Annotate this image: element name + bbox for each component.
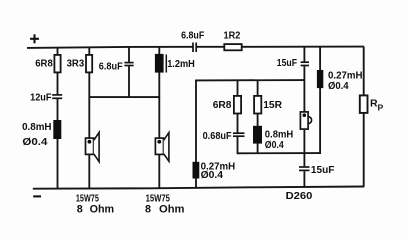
svg-text:1.2mH: 1.2mH (167, 59, 195, 70)
capacitor 15uF (top) (301, 62, 309, 65)
svg-text:6.8uF: 6.8uF (181, 31, 204, 42)
inductor 0.8mH (woofer branch) (53, 120, 61, 139)
resistor 15R (254, 96, 261, 114)
resistor 6R8 (tweeter section) (234, 96, 241, 114)
wire branch 15R/0.8mH (257, 80, 259, 153)
tweeter D260 (300, 112, 311, 129)
wire top rail left of 6.8uF cap (27, 47, 193, 48)
svg-text:3R3: 3R3 (67, 59, 85, 70)
svg-text:D260: D260 (286, 191, 313, 202)
resistor Rp (360, 95, 368, 113)
wire branch 6R8/12uF/0.8mH upper (57, 48, 59, 95)
label Rp (370, 98, 384, 113)
svg-text:8: 8 (77, 203, 83, 215)
label 8 Ohm speaker1 (77, 203, 114, 215)
svg-text:P: P (378, 102, 384, 112)
wire bottom rail (33, 187, 364, 189)
minus terminal (33, 195, 41, 197)
svg-text:Ø0.4: Ø0.4 (265, 140, 284, 151)
wire branch tweeter middle (303, 66, 305, 166)
svg-text:15R: 15R (263, 100, 282, 111)
wire branch tweeter bottom (303, 171, 305, 187)
svg-text:15uF: 15uF (311, 165, 335, 176)
wire branch 6.8uF upper (128, 47, 130, 62)
inductor 1.2mH (155, 54, 166, 73)
wire branch Rp right vertical (363, 47, 365, 187)
capacitor 6.8uF (series, top rail) (193, 43, 196, 53)
svg-text:0.8mH: 0.8mH (22, 122, 51, 133)
svg-text:Ohm: Ohm (159, 204, 185, 216)
svg-text:6.8uF: 6.8uF (99, 61, 123, 72)
plus terminal (30, 34, 39, 43)
wire tweeter section top (horizontal) (195, 79, 305, 81)
wire top rail right of 6.8uF cap (196, 46, 364, 48)
wire branch 6R8/12uF/0.8mH lower (57, 99, 59, 189)
capacitor 12uF (52, 95, 62, 98)
inductor 0.27mH (right) (317, 70, 323, 88)
svg-text:Ø0.4: Ø0.4 (22, 137, 47, 148)
svg-text:15uF: 15uF (277, 58, 297, 69)
inductor 0.8mH (tweeter section) (253, 126, 262, 144)
wire branch 6R8/0.68uF lower (237, 137, 239, 154)
svg-text:Ohm: Ohm (90, 203, 115, 215)
svg-text:6R8: 6R8 (35, 59, 53, 70)
resistor 3R3 (86, 55, 92, 73)
svg-text:1R2: 1R2 (224, 31, 241, 42)
label 8 Ohm speaker2 (145, 204, 185, 216)
wire branch 3R3 / speaker1 (88, 48, 90, 189)
resistor 6R8 (woofer branch) (54, 55, 60, 73)
svg-text:Ø0.4: Ø0.4 (201, 170, 224, 181)
wire branch 0.27mH right (319, 47, 321, 154)
wire branch 0.27mH left vertical (195, 80, 197, 188)
svg-text:12uF: 12uF (30, 93, 51, 104)
speaker woofer 1 (86, 132, 100, 161)
svg-text:Ø0.4: Ø0.4 (328, 81, 349, 92)
wire node woofers (horizontal) (89, 96, 161, 98)
wire branch tweeter upper (303, 47, 305, 62)
capacitor 0.68uF (233, 133, 245, 136)
wire tweeter section bottom (horizontal) (237, 152, 321, 154)
resistor 1R2 (224, 44, 241, 50)
svg-text:6R8: 6R8 (213, 100, 232, 111)
wire branch 6.8uF lower (128, 66, 130, 97)
inductor 0.27mH (left) (193, 162, 200, 179)
wire branch 6R8/0.68uF upper (237, 80, 239, 132)
capacitor 6.8uF (parallel RC) (124, 63, 133, 66)
svg-text:8: 8 (145, 204, 151, 216)
svg-text:0.68uF: 0.68uF (203, 131, 232, 142)
svg-text:0.27mH: 0.27mH (328, 70, 363, 81)
wire branch 1.2mH / speaker2 (158, 47, 160, 188)
capacitor 15uF (bottom) (299, 167, 310, 170)
speaker woofer 2 (155, 133, 169, 162)
